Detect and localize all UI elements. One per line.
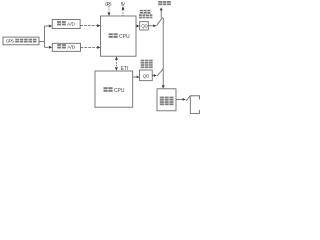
switch blade upper — [157, 18, 163, 26]
wire E to switch — [148, 25, 153, 27]
box H realtime control element — [157, 89, 176, 111]
arrow up into D bottom — [115, 56, 118, 59]
label distance record line1 — [140, 10, 151, 14]
text float CPU in box G — [104, 87, 113, 92]
text upper A/D box — [57, 21, 66, 25]
arrow H to switch — [183, 98, 186, 101]
wire long vertical to control box — [162, 18, 164, 85]
wire C to D dashed — [81, 46, 98, 48]
svg-text:A/D: A/D — [67, 45, 76, 51]
text realtime control line1 — [160, 97, 174, 101]
svg-text:CPU: CPU — [119, 34, 130, 40]
text realtime control line2 — [160, 101, 174, 105]
arrow GPS into D top — [108, 13, 111, 17]
svg-text:5V: 5V — [121, 1, 126, 7]
wire to lower A/D — [44, 46, 48, 48]
wire D-G dashed vertical — [115, 59, 117, 67]
svg-text:QD: QD — [143, 74, 149, 79]
wire up to memory label — [160, 10, 162, 18]
box G float CPU — [95, 71, 133, 107]
label distance record line2 — [139, 14, 152, 18]
arrow into F — [137, 76, 140, 79]
wire to upper A/D — [44, 25, 48, 27]
arrow down into H — [162, 85, 165, 88]
arrow F switch — [154, 74, 157, 77]
wire G to F — [133, 76, 136, 78]
arrow 5V up — [122, 6, 125, 10]
svg-text:A/D: A/D — [67, 22, 76, 28]
arrow C into D — [97, 46, 100, 49]
arrow into upper A/D — [49, 25, 52, 28]
box F QD lower — [140, 70, 153, 81]
text receive CPU in box D — [109, 33, 118, 38]
svg-text:ETI: ETI — [121, 66, 129, 72]
wire H out — [176, 98, 183, 100]
wire F to switch — [152, 75, 154, 77]
wire 5V down dashed — [122, 10, 124, 17]
wire A to splitter — [39, 41, 44, 43]
arrow into E — [137, 25, 140, 28]
arrow up to memory label — [160, 7, 163, 10]
box A GPS signal source — [3, 37, 39, 45]
wire B to D dashed — [80, 25, 97, 27]
box E QD upper — [140, 22, 149, 30]
box C lowpass A/D lower — [52, 43, 80, 51]
label memory (top right) — [158, 1, 171, 5]
svg-text:QD: QD — [141, 24, 147, 29]
arrow into lower A/D — [49, 46, 52, 49]
arrow B into D — [97, 24, 100, 27]
wire GPS down dashed — [108, 6, 110, 12]
svg-text:CPU: CPU — [114, 88, 125, 94]
label auto control line2 — [141, 64, 153, 68]
arrow down into G top — [115, 67, 118, 71]
wire splitter vertical — [43, 26, 45, 47]
box D receive CPU — [101, 16, 137, 56]
box B lowpass A/D upper — [52, 19, 80, 28]
svg-text:GPS: GPS — [6, 39, 14, 44]
bracket connector right — [190, 96, 199, 114]
switch blade right — [186, 96, 190, 101]
text lower A/D box — [57, 44, 66, 48]
svg-text:GPS: GPS — [105, 1, 112, 7]
arrow E switch — [153, 24, 156, 27]
wire D to E — [135, 25, 138, 27]
label auto control line1 — [141, 60, 153, 64]
switch blade lower — [157, 69, 163, 76]
